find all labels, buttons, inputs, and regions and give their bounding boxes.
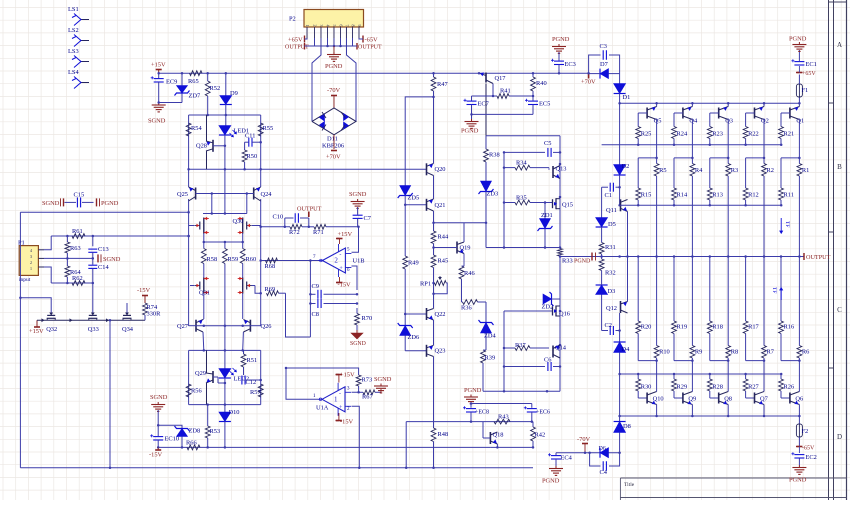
svg-text:R43: R43 [498,414,509,421]
svg-text:-: - [339,252,341,258]
svg-text:ZD8: ZD8 [189,428,201,435]
svg-text:LS3: LS3 [68,48,79,55]
svg-text:LS4: LS4 [68,69,79,76]
capacitor EC8 [463,406,489,421]
svg-text:Q10: Q10 [653,396,664,403]
svg-text:R70: R70 [362,315,373,322]
svg-text:OUTPUT: OUTPUT [285,45,309,51]
resistor R65 [188,71,202,85]
svg-text:R71: R71 [313,229,324,236]
resistor R30 [636,374,652,398]
svg-text:+70V: +70V [326,154,341,161]
title block [620,478,846,500]
svg-text:R27: R27 [748,384,759,391]
wire collector bus top [620,102,801,105]
svg-text:D8: D8 [623,423,631,430]
transistor Q22 [427,308,446,320]
svg-text:B: B [837,163,842,171]
resistor R73 [356,375,372,386]
resistor R59 [223,249,239,264]
svg-text:P2: P2 [289,16,296,23]
connector P1 [18,240,44,284]
rail +70V top [159,72,589,74]
ground PGND (EC4) [542,466,563,485]
wire Q21 emitter [432,211,435,231]
wire R60 drop [242,264,244,278]
fet Q30 left [189,217,209,233]
svg-text:R22: R22 [748,131,759,138]
svg-text:SGND: SGND [42,200,60,207]
port PGND (rail) [574,253,596,265]
wire C1 col [601,187,603,217]
svg-text:R52: R52 [210,85,221,92]
svg-text:R29: R29 [677,384,688,391]
LED LED2 [219,350,249,404]
svg-text:D9: D9 [230,90,238,97]
wire jog bot R7 [746,359,766,390]
resistor R9 [690,257,702,361]
svg-text:PGND: PGND [325,63,343,70]
svg-text:R17: R17 [748,324,759,331]
svg-text:R60: R60 [246,256,257,263]
svg-text:Q16: Q16 [559,311,570,318]
wire driver bus top [620,204,783,207]
resistor R40 [531,72,547,101]
svg-text:D7: D7 [600,61,609,68]
svg-text:6: 6 [347,268,350,273]
svg-text:R61: R61 [72,228,83,235]
wire U1A pin2 down [352,406,361,469]
wire F2 col [798,416,800,424]
svg-text:R56: R56 [191,388,202,395]
resistor R53 [205,403,220,448]
wire rail2 [556,451,620,454]
svg-text:PGND: PGND [464,387,482,394]
wire R71 to C7 [326,226,360,229]
svg-text:C14: C14 [98,264,109,271]
svg-text:OUTPUT: OUTPUT [358,45,382,51]
svg-text:RP1: RP1 [420,281,431,288]
svg-text:6: 6 [338,25,343,27]
svg-text:PGND: PGND [574,259,591,265]
svg-text:R14: R14 [677,192,688,199]
svg-text:C7: C7 [364,215,372,222]
wire Q22-Q23 [433,320,435,345]
wire frame right top [559,136,562,248]
svg-text:Q28: Q28 [196,143,207,150]
resistor R24 [672,113,688,145]
svg-text:R42: R42 [535,432,546,439]
port -65V (F2) [796,446,815,452]
wire EC5 bottom [470,113,533,116]
wire P1 pin1 to R61 row [44,236,51,250]
ground SGND tri (R70) [350,325,366,347]
svg-text:C4: C4 [600,469,608,476]
svg-text:R66: R66 [186,440,197,447]
wire jog R11 [781,158,799,188]
svg-text:SGND: SGND [349,191,367,198]
wire P2 pins [307,27,359,38]
wire inner col bot [503,311,506,391]
resistor R35 [504,195,552,205]
resistor R47 [431,72,448,163]
svg-text:PGND: PGND [552,36,570,43]
capacitor C10 [273,213,299,223]
ground SGND (C7) [349,191,367,215]
svg-text:3: 3 [319,25,324,27]
wire OUTPUT rail [560,255,804,258]
svg-text:F2: F2 [802,428,809,435]
wire Q12 emitter [627,257,629,302]
svg-text:ZD7: ZD7 [189,93,202,100]
svg-text:Q5: Q5 [654,118,662,125]
resistor R26 [779,374,795,398]
svg-text:R68: R68 [265,263,276,270]
svg-text:Q2: Q2 [761,118,769,125]
annotation TF bottom [771,287,783,300]
svg-text:TF: TF [771,287,777,293]
mosfet Q16 [553,306,571,318]
rail -15V/-70V feed [158,446,490,448]
wire frame top edge [486,135,560,137]
svg-text:KBP206: KBP206 [322,143,344,150]
capacitor EC2 [791,447,816,466]
capacitor C7 [353,215,372,227]
transistor Q33 [88,307,99,333]
svg-text:R44: R44 [438,234,449,241]
wire P1 pin3 to R62 row [44,267,51,283]
svg-text:-65V: -65V [365,37,379,44]
wire R41 row [472,95,535,98]
svg-text:R64: R64 [70,269,81,276]
svg-text:D4: D4 [622,346,631,353]
svg-text:Q14: Q14 [555,345,567,352]
wire C4 loop [590,453,620,466]
svg-text:R1: R1 [802,167,809,174]
svg-text:R3: R3 [731,167,738,174]
svg-text:Q11: Q11 [606,207,617,214]
svg-text:+65V: +65V [802,71,816,77]
capacitor C14 [88,258,109,283]
svg-text:R51: R51 [247,357,258,364]
wire left drop [19,212,21,468]
wire Q34 gate [126,303,128,307]
transistor Q28 [196,115,225,169]
resistor R51 [241,350,257,375]
wire F1 col [798,97,800,103]
wire mid row [406,420,533,467]
resistor R11 [779,188,794,205]
svg-text:R23: R23 [712,131,723,138]
svg-text:R53: R53 [210,428,221,435]
svg-text:SGND: SGND [150,394,168,401]
transistor Q8 [719,390,732,416]
svg-text:Q13: Q13 [556,166,567,173]
capacitor C6 [504,357,560,372]
svg-text:7: 7 [344,25,349,27]
svg-text:R25: R25 [641,131,652,138]
wire jog R14 [674,158,692,188]
wire Q16 gate row [504,310,552,312]
resistor R1 [797,158,809,258]
svg-text:1: 1 [334,396,338,404]
wire jog bot R10 [638,359,658,390]
svg-text:R46: R46 [464,270,475,277]
transistor Q19 [434,242,471,254]
svg-text:-70V: -70V [577,436,591,443]
svg-text:Q9: Q9 [688,396,696,403]
wire ZD5 col top [405,96,435,186]
wire fet source node [203,169,247,214]
resistor R7 [762,257,775,361]
svg-text:4: 4 [30,248,32,253]
zener ZD4 [479,320,497,350]
svg-text:EC4: EC4 [561,455,573,462]
annotation TF top [780,218,790,234]
resistor R29 [672,374,688,398]
wire frame bottom top [486,246,561,249]
svg-text:D: D [837,433,842,441]
transistor Q25 [177,187,196,201]
potentiometer RP1 [420,276,447,294]
svg-text:LS2: LS2 [68,27,79,34]
wire col D2 [619,103,621,164]
resistor R60 [240,249,256,264]
svg-text:R16: R16 [784,324,795,331]
svg-text:EC7: EC7 [478,101,490,108]
bridge D11 [312,108,356,150]
svg-text:2: 2 [30,260,32,265]
capacitor C1 [602,183,620,199]
transistor Q7 [755,390,769,416]
svg-text:C9: C9 [312,283,319,290]
svg-text:Q34: Q34 [122,326,134,333]
svg-text:+70V: +70V [581,79,596,86]
svg-text:R58: R58 [207,256,218,263]
resistor R68 [265,258,278,270]
wire C3 loop [587,55,619,74]
svg-text:R12: R12 [748,192,759,199]
wire to box2 [203,332,243,350]
ground SGND (R67) [374,376,392,393]
svg-text:R21: R21 [784,131,795,138]
port OUTPUT (right) [804,253,831,261]
connector LS2 [68,27,89,47]
svg-text:TF: TF [784,221,790,227]
svg-text:2: 2 [334,257,338,265]
svg-text:Q7: Q7 [760,396,769,403]
op-amp U1B [313,244,365,277]
resistor R50 [242,142,257,170]
wire fb caps [309,261,312,338]
resistor R18 [707,255,723,360]
svg-text:R18: R18 [712,324,723,331]
wire base bus top [602,143,783,146]
svg-text:R31: R31 [605,244,616,251]
svg-text:C12: C12 [246,379,257,386]
capacitor C5 [504,140,560,157]
capacitor C8 [310,299,358,318]
svg-text:R57: R57 [250,389,261,396]
power -15V (U1A) [336,413,354,426]
resistor R2 [762,158,774,258]
svg-text:4: 4 [325,25,330,27]
ground SGND (EC10) [150,394,168,436]
wire Q25-Q24 base row [196,192,254,195]
capacitor C4 [600,461,608,476]
transistor Q1 [790,103,804,124]
resistor R5 [654,158,666,258]
wire jog R13 [710,158,728,188]
sheet border [829,0,847,500]
svg-text:R65: R65 [188,78,199,85]
resistor R17 [743,255,759,360]
wire U1B out row [261,259,320,262]
zener ZD6 [398,314,420,351]
svg-text:Q17: Q17 [495,75,507,82]
wire R44-R45 [432,244,435,256]
resistor R21 [779,113,795,145]
transistor Q29 [195,350,225,404]
wire Q21 base row [405,204,426,206]
svg-text:+EC8: +EC8 [475,410,489,416]
svg-text:R13: R13 [712,192,723,199]
svg-text:+15V: +15V [151,62,166,69]
svg-text:F1: F1 [802,87,809,94]
connector P2 [289,10,364,28]
svg-text:C1: C1 [605,192,612,199]
wire U1A fb loop [285,367,359,400]
resistor R66 [186,440,200,450]
transistor Q10 [647,390,664,416]
svg-text:ZD3: ZD3 [487,191,499,198]
power +15V (U1A) [336,372,355,383]
port OUTPUT left (P2) [285,43,309,51]
wire Q11 emitter [626,212,629,258]
power port +15V [151,62,166,74]
svg-text:Q1: Q1 [796,118,804,125]
transistor Q23 [427,345,446,357]
zener ZD3 [479,181,499,248]
svg-text:Q27: Q27 [177,323,189,330]
capacitor EC9 [151,76,178,102]
wire frame bottom bot [483,390,560,393]
power port -15V (EC10) [149,447,163,458]
capacitor C15 [42,192,119,208]
transistor Q26 [243,320,271,333]
wire C14 to Q33 gate [92,282,95,307]
svg-text:C3: C3 [600,43,607,50]
connector LS1 [68,6,89,26]
wire Q2 emitter col [763,119,766,159]
wire ZD8 tap [157,424,182,428]
port SGND (input) [98,254,121,263]
wire R58 drop [203,264,205,278]
svg-text:+65V: +65V [288,37,303,44]
capacitor C3 [600,43,607,60]
transistor Q6 [790,390,803,416]
svg-text:R34: R34 [516,160,527,167]
resistor R41 [497,88,511,99]
resistor R55 [258,123,273,136]
transistor Q4 [683,103,698,124]
svg-text:R63: R63 [70,245,81,252]
svg-text:EC1: EC1 [806,61,817,68]
resistor R67 [359,390,381,401]
power -15V (U1B) [336,277,351,289]
svg-text:Q21: Q21 [435,202,446,209]
wire mirror bus bot [620,373,783,376]
wire frame left top [485,136,487,149]
svg-text:R72: R72 [289,229,300,236]
connector LS4 [68,69,89,89]
svg-text:Q31: Q31 [199,290,210,297]
svg-text:-70V: -70V [327,87,341,94]
wire Q19 emitter [463,254,465,267]
resistor R70 [355,314,373,326]
svg-text:C10: C10 [273,214,284,221]
svg-text:Q19: Q19 [460,245,471,252]
port -65V (P2) [359,36,378,44]
wire bridge AC right [347,38,357,121]
wire R70 col [356,308,358,314]
capacitor EC10 [150,434,179,448]
diode D3 [596,272,616,296]
svg-text:Q30: Q30 [233,218,244,225]
resistor R20 [636,255,652,360]
svg-text:-15V: -15V [340,419,354,426]
svg-text:R59: R59 [228,256,239,263]
wire D1 col [619,74,621,84]
resistor R31 [599,243,615,258]
svg-text:R73: R73 [362,377,373,384]
wire Q32 chain [37,319,145,322]
svg-text:R45: R45 [438,258,449,265]
svg-text:C15: C15 [74,192,85,199]
svg-text:Q3: Q3 [725,118,733,125]
resistor R10 [654,257,670,361]
svg-text:R7: R7 [767,349,775,356]
svg-text:Q8: Q8 [724,396,732,403]
wire Q11 base [618,187,621,206]
svg-text:+15V: +15V [340,372,355,379]
svg-text:-: - [339,391,341,397]
svg-text:Q12: Q12 [606,305,617,312]
diode D5 [596,218,616,243]
svg-text:D3: D3 [608,288,616,295]
zener ZD8 [175,426,201,449]
svg-text:C2: C2 [605,322,612,329]
capacitor C2 [602,322,620,335]
wire inner col top [503,151,506,247]
diode D10 [219,405,240,449]
svg-text:EC2: EC2 [806,454,817,461]
resistor R42 [490,422,545,449]
svg-text:-15V: -15V [137,287,151,294]
wire Q19 collector [434,223,486,242]
diode D2 [614,163,630,188]
transistor Q20 [427,163,446,176]
wire C2 col [601,295,603,331]
zener ZD5 [398,186,420,205]
svg-text:OUTPUT: OUTPUT [297,206,322,213]
wire ZD5 col mid [404,204,407,256]
wire Q27-Q26 base row [196,324,250,327]
fuse F1 [796,75,808,98]
power port +15V (Q32) [29,320,44,335]
port OUTPUT right (P2) [357,43,382,51]
resistor R64 [65,258,81,283]
